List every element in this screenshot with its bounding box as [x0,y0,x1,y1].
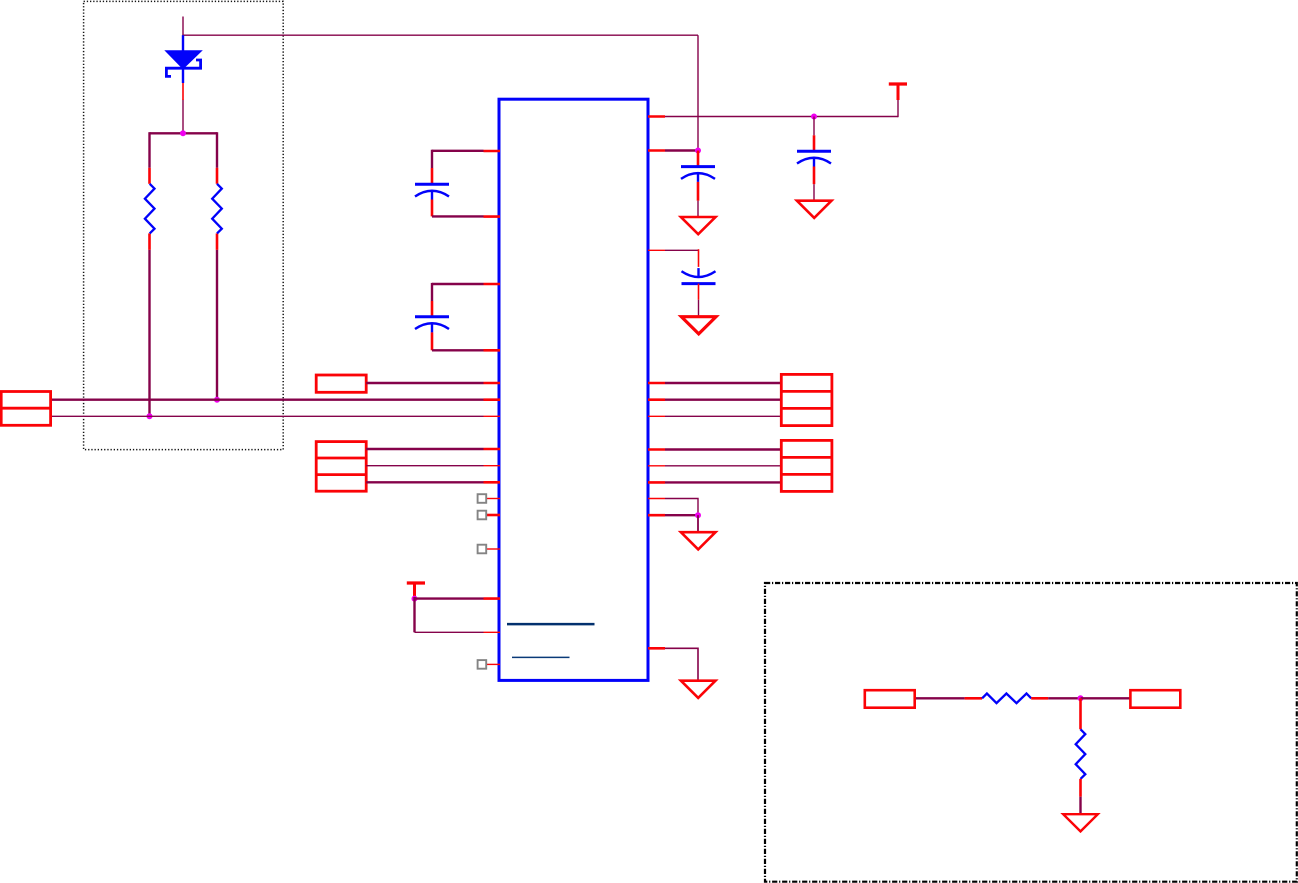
wire: junction down to C4 [813,117,815,136]
wire: left resistor bottom leg down to thin bus [148,250,150,416]
IC U1 (main body) [499,99,648,680]
wire: right stack2 pin1 [665,448,781,450]
wire: junction down to ground [697,515,699,532]
node: junction gnd loop [695,512,701,518]
wire: vertical drop at x=698 to VDD pin junction [697,35,699,150]
wire: right stack2 pin2 [665,465,781,467]
wire: gnd loop upper pin [665,499,698,516]
dotted selection box around clamp section [84,1,284,449]
node: junction top-right run / C4 [811,114,817,120]
pin: diode D1 bottom pin [182,83,184,100]
node: junction left resistor on thin bus [147,413,153,419]
wire: diode cathode down to resistor pair rail [182,100,184,134]
wire: tee stem down to run [897,100,899,117]
wire: right stack2 pin3 [665,481,781,483]
capacitor C4 (at x=814) [797,135,831,201]
wire: left resistor top leg [148,132,150,168]
capacitor C2 (lower left loop) [415,283,484,350]
wire: pin 250 to C5 [665,249,699,251]
wire: gnd loop lower pin [665,514,698,516]
port group P4 (right triple stack lower) [781,440,832,491]
unconnected pin cue (gray square) pin 664 [478,660,487,669]
dash-dot box around divider section [765,583,1297,882]
wire: right stack1 pin2 [665,399,781,401]
wire: right stack1 pin3 [665,415,781,417]
wire: right stack1 pin1 [665,382,781,384]
capacitor C3 (at x=698) [681,151,715,218]
resistor R3 (horizontal) [965,694,1049,704]
node: junction at diode / resistor rail [180,130,186,136]
wire: P2 pin1 to U1 [366,448,483,450]
connector J1 (left dual port) [1,392,50,426]
wire: thin bus from left connector to U1 [51,415,484,417]
wire: VDD pin to junction [665,149,698,151]
wire: P2 pin2 to U1 [366,465,483,467]
U1 left pins [484,151,501,664]
wire: stub above diode node [182,17,184,36]
wire: tied pin upper [415,597,484,599]
port P1 (mid single box) [316,375,366,392]
capacitor C5 (flipped, at x=698.5) [682,249,716,317]
diode D1 (TVS, blue) [166,35,201,83]
wire: R4 to ground [1079,797,1081,815]
resistor R2 (right of pair) [216,168,219,250]
port P6 (divider right) [1130,690,1180,708]
wire: P2 pin3 to U1 [366,481,483,483]
wire: tied pin lower [415,631,484,633]
ground below R4 [1063,814,1098,831]
supply tee symbol top right [889,84,907,100]
wire: long top-right run to supply tee [665,116,898,118]
unconnected pin cue (gray square) pin 498.5 [478,494,487,503]
ground below bottom right pin [681,681,716,698]
active-low overbar line 1 inside U1 [507,623,595,626]
active-low overbar line 2 inside U1 [512,656,570,658]
U1 right pins [648,117,665,649]
resistor R1 (left of pair) [148,168,151,250]
node: junction VDD / C3 [695,148,701,154]
wire: R3 to junction [1048,697,1080,699]
port group P2 (left triple stack) [316,442,366,492]
node: junction tee / tied pins [412,596,418,602]
port group P3 (right triple stack upper) [781,374,832,425]
port P5 (divider left) [865,690,915,708]
wire: thick bus from left connector to U1 [51,399,484,401]
divider section: wire port A to R3 [915,697,965,699]
ground below C4 [797,201,832,218]
ground below C5 [681,317,716,334]
wire: right resistor bottom leg down to thick bus [216,250,218,400]
resistor R4 (vertical, to ground) [1076,698,1086,796]
wire: bottom right pin to ground [665,648,698,681]
supply tee symbol bottom left [407,583,425,597]
unconnected pin cue (gray square) pin 515 [478,511,487,520]
wire: junction to port B [1081,697,1131,699]
wire: top horizontal run from diode to right column [182,34,698,36]
ground below gnd loop [681,532,716,549]
wire: right resistor top leg [216,132,218,168]
capacitor C1 (upper left loop) [415,150,484,217]
ground below C3 [681,217,716,234]
node: junction divider tap [1078,695,1084,701]
node: junction right resistor on thick bus [214,397,220,403]
wire: tied pin vertical [413,597,415,632]
wire: port P1 to U1 [366,382,483,384]
unconnected pin cue (gray square) pin 549 [478,545,487,554]
wire: resistor pair top rail [150,132,218,134]
